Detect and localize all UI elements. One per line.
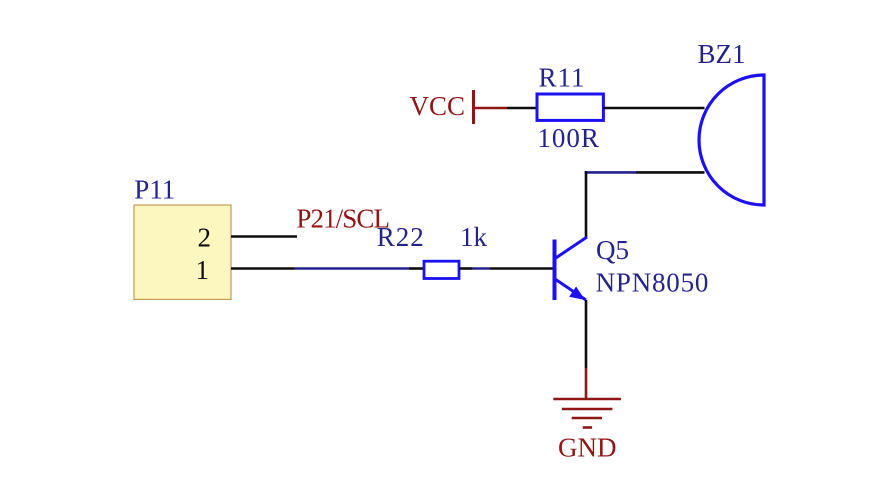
svg-text:2: 2 — [198, 223, 212, 253]
svg-text:BZ1: BZ1 — [698, 39, 746, 69]
svg-text:VCC: VCC — [409, 91, 465, 121]
svg-text:GND: GND — [558, 432, 617, 462]
svg-text:P11: P11 — [134, 174, 175, 204]
svg-text:P21/SCL: P21/SCL — [296, 204, 389, 234]
svg-text:R11: R11 — [539, 63, 586, 93]
svg-text:R22: R22 — [377, 222, 425, 252]
svg-text:1k: 1k — [460, 222, 488, 252]
svg-text:NPN8050: NPN8050 — [596, 268, 710, 298]
svg-text:100R: 100R — [537, 123, 600, 153]
svg-text:Q5: Q5 — [596, 235, 629, 265]
svg-text:1: 1 — [196, 255, 210, 285]
